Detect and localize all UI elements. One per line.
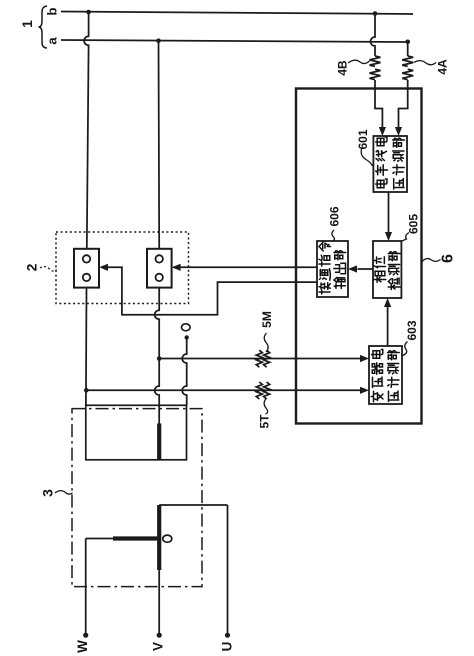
svg-text:606: 606 [328,206,342,226]
svg-text:V: V [151,642,166,651]
svg-text:b: b [45,7,60,15]
svg-text:601: 601 [356,129,370,149]
svg-text:a: a [45,37,60,45]
svg-text:605: 605 [407,214,421,234]
svg-text:6: 6 [440,254,457,263]
svg-text:4B: 4B [336,60,350,76]
svg-text:4A: 4A [436,59,450,75]
svg-text:1: 1 [19,20,35,28]
svg-text:3: 3 [40,489,56,497]
svg-text:5M: 5M [260,311,274,328]
svg-text:W: W [75,640,90,653]
svg-text:5T: 5T [258,414,272,429]
svg-text:U: U [220,642,235,652]
svg-text:603: 603 [405,320,419,340]
svg-text:2: 2 [24,263,40,271]
